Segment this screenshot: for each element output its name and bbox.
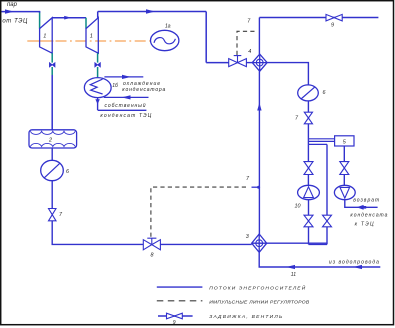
wire: main column to pump P10: [307, 144, 309, 161]
wire: crossover pipe T1 to T2: [52, 17, 86, 19]
svg-text:9: 9: [173, 320, 176, 326]
control valve V8 with actuator: [143, 240, 152, 250]
pump P6b (circle with slash): [298, 85, 319, 101]
valve above P10 (open bowtie): [304, 162, 313, 168]
wire: HX2 to pump P6: [51, 148, 53, 160]
svg-text:6: 6: [323, 90, 326, 96]
wire: P6b down: [307, 101, 309, 112]
regulator R5 (box): [335, 136, 354, 146]
svg-text:1б: 1б: [112, 83, 118, 89]
svg-text:конденсатора: конденсатора: [122, 87, 165, 93]
flow arrow raw water 1: [286, 265, 295, 269]
svg-text:к ТЭЦ: к ТЭЦ: [355, 221, 374, 227]
wire: P6 down to valve V7: [51, 181, 53, 209]
svg-text:собственный: собственный: [105, 102, 146, 109]
valve (small) on T1 drain: [49, 63, 55, 67]
svg-text:возврат: возврат: [353, 198, 379, 204]
svg-text:конденсат ТЭЦ: конденсат ТЭЦ: [100, 113, 151, 119]
orange shaft centerline: [27, 40, 53, 42]
svg-text:7: 7: [247, 19, 251, 25]
svg-text:конденсата: конденсата: [350, 213, 387, 219]
wire: bottom collector from M3: [267, 242, 327, 244]
wire: M4 top riser and city heat main: [258, 18, 260, 55]
wire: P10 outlet down: [308, 200, 310, 216]
wire: R5 down to pump PV: [343, 146, 345, 162]
pump P6 (circle with slash): [41, 160, 64, 180]
legend: valve symbol: [158, 315, 193, 317]
wire: raw water inlet (из водопровода): [259, 252, 380, 267]
flow arrow raw water 2: [353, 265, 362, 269]
svg-text:ЗАДВИЖКА, ВЕНТИЛЬ: ЗАДВИЖКА, ВЕНТИЛЬ: [209, 314, 282, 320]
mixer M4 (diamond with circle): [252, 54, 267, 71]
wire: down to regulator tee: [307, 124, 309, 145]
wire: T2 exhaust to condenser: [97, 53, 99, 62]
legend: impulse line: [157, 300, 203, 302]
wire: to bottom main: [52, 221, 143, 245]
svg-text:4: 4: [248, 49, 251, 55]
flow arrow on heat header: [146, 9, 155, 13]
valve V7b (open bowtie): [304, 112, 312, 118]
svg-text:1: 1: [43, 34, 46, 40]
svg-text:ИМПУЛЬСНЫЕ ЛИНИИ РЕГУЛЯТОРОВ: ИМПУЛЬСНЫЕ ЛИНИИ РЕГУЛЯТОРОВ: [209, 300, 310, 306]
svg-text:ПОТОКИ ЭНЕРГОНОСИТЕЛЕЙ: ПОТОКИ ЭНЕРГОНОСИТЕЛЕЙ: [209, 283, 306, 291]
svg-text:6: 6: [66, 169, 69, 175]
wire: T2 exhaust riser to heat header: [97, 12, 99, 18]
wire: condensate return line: [345, 200, 378, 208]
svg-text:10: 10: [295, 204, 301, 210]
pump P10 (circle with up triangle): [298, 185, 320, 199]
impulse line to valve V7a (dashed): [237, 31, 257, 55]
wire: tee to bypass column: [308, 143, 327, 145]
wire: cooling water inlet: [104, 96, 149, 98]
wire: turbine T1 inlet drop: [39, 11, 41, 13]
svg-text:2: 2: [48, 138, 52, 144]
mixer M3 (diamond with circle): [252, 234, 267, 252]
svg-text:1а: 1а: [165, 23, 171, 29]
valve V9 (filled bowtie): [326, 14, 334, 21]
generator U1a: [151, 30, 179, 50]
svg-text:9: 9: [331, 22, 334, 28]
condenser U1b: [84, 78, 111, 98]
svg-text:8: 8: [151, 252, 154, 258]
svg-text:7: 7: [59, 212, 63, 218]
wire: turbine T2 inlet drop: [85, 18, 87, 29]
wire: condensate out of condenser: [97, 98, 99, 110]
wire: M3 riser up to M4: [258, 71, 260, 234]
svg-text:3: 3: [246, 234, 249, 240]
impulse line to valve V8 (dashed): [151, 187, 249, 237]
flow arrow on return: [357, 205, 364, 210]
valve on bypass (open bowtie): [323, 215, 332, 221]
svg-text:от ТЭЦ: от ТЭЦ: [2, 19, 28, 25]
wire: steam supply header (пар от ТЭЦ): [2, 11, 40, 13]
svg-text:1: 1: [90, 34, 93, 40]
wire: double impulse pipes to regulator R5: [308, 138, 334, 140]
flow arrow on crossover: [64, 16, 71, 20]
wire: T1 extraction drain: [51, 53, 53, 62]
pump PV (circle with down triangle): [334, 185, 355, 199]
legend: energy flow line: [157, 286, 203, 288]
wire: cooling water outlet: [104, 76, 143, 78]
valve above PV (open bowtie): [340, 162, 349, 168]
impulse tap stub on riser: [252, 186, 260, 188]
control valve V7a (steam admission, with actuator): [229, 59, 238, 67]
flow arrow on steam supply: [5, 9, 14, 13]
svg-text:11: 11: [291, 272, 296, 278]
wire: bypass column x=327: [326, 144, 328, 215]
wire: valve V8 to mixer M3: [160, 243, 251, 245]
turbine section 1 (label 1): [40, 18, 53, 54]
flow arrow up on riser: [257, 103, 261, 111]
svg-text:7: 7: [295, 116, 299, 122]
valve V7 (left, open bowtie): [49, 209, 57, 215]
heat exchanger HX2: [29, 130, 77, 148]
valve below P10 (open bowtie): [304, 215, 313, 221]
svg-text:7: 7: [246, 176, 250, 182]
svg-text:из водопровода: из водопровода: [329, 260, 379, 266]
turbine section 2 (label 1): [86, 18, 98, 54]
svg-text:пар: пар: [7, 2, 18, 8]
valve (small) on condenser line: [95, 63, 101, 67]
wire: M4 to pump P6b branch: [267, 63, 308, 85]
wire: header drop to control valve: [205, 12, 207, 63]
